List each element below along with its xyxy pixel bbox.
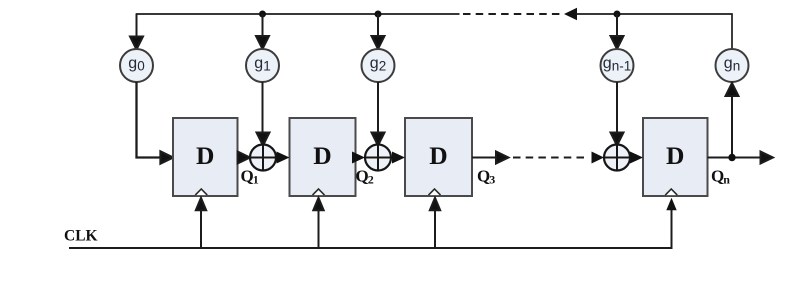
wire: bus drop into g0 with arrowhead bbox=[130, 14, 143, 50]
junction dot on bus above g2 bbox=[375, 11, 382, 18]
tap coefficient g1 bbox=[246, 49, 279, 82]
node label Q3 bbox=[477, 167, 495, 187]
svg-text:g0: g0 bbox=[128, 55, 144, 74]
D flip-flop U2 bbox=[290, 118, 356, 196]
wire: top feedback bus, solid right segment bbox=[577, 14, 733, 49]
arrowhead: CLK into FF4 clock input bbox=[666, 198, 676, 211]
arrowhead: feedback flow pointing left into dashed bus bbox=[564, 8, 577, 20]
svg-text:Q: Q bbox=[477, 167, 490, 186]
XOR gate X1 (modulo-2 adder) bbox=[250, 145, 276, 171]
wire: bus drop into g1 with arrowhead bbox=[256, 14, 269, 49]
D flip-flop U1 bbox=[173, 118, 238, 196]
wire: dashed continuation between FF3 and XOR3 bbox=[513, 157, 586, 159]
junction dot on bus above g1 bbox=[259, 11, 266, 18]
wire: g0 output down and right into FF1 D input with arrowhead bbox=[137, 82, 174, 164]
wire: bus drop into gn-1 with arrowhead bbox=[611, 14, 624, 49]
svg-text:Q: Q bbox=[241, 167, 254, 186]
tap coefficient gn-1 bbox=[601, 49, 634, 82]
svg-text:3: 3 bbox=[489, 173, 495, 187]
wire: FF1 Q output into XOR1 with arrowhead bbox=[238, 152, 251, 164]
wire: CLK branch up into FF1 clock input with arrowhead bbox=[196, 198, 206, 248]
svg-text:n: n bbox=[723, 173, 730, 187]
svg-text:Q: Q bbox=[711, 167, 724, 186]
arrowhead: dashed line into XOR3 bbox=[592, 152, 605, 164]
wire: XOR3 output into FF4 D input with arrowhead bbox=[630, 152, 643, 164]
tap coefficient g2 bbox=[362, 49, 395, 82]
tap coefficient g0 bbox=[120, 49, 153, 82]
wire: output junction up into gn with arrowhead bbox=[726, 83, 739, 158]
node label Q1 bbox=[241, 167, 259, 187]
wire: gn-1 down into XOR3 with arrowhead bbox=[611, 82, 624, 146]
clock edge-trigger notch of U4 bbox=[665, 189, 677, 195]
node label Qn bbox=[711, 167, 730, 187]
svg-text:D: D bbox=[313, 141, 331, 170]
svg-text:D: D bbox=[196, 141, 214, 170]
wire: CLK distribution line bbox=[69, 210, 672, 248]
wire: XOR2 output into FF3 D input with arrowhead bbox=[392, 152, 405, 164]
net label CLK bbox=[64, 228, 98, 245]
svg-text:g2: g2 bbox=[370, 55, 386, 74]
wire: CLK branch up into FF3 clock input with arrowhead bbox=[430, 198, 440, 248]
wire: FF2 Q output into XOR2 with arrowhead bbox=[352, 152, 365, 164]
svg-text:CLK: CLK bbox=[64, 228, 98, 245]
tap coefficient gn bbox=[716, 49, 749, 82]
wire: CLK branch up into FF2 clock input with arrowhead bbox=[313, 198, 323, 248]
svg-text:D: D bbox=[429, 141, 447, 170]
node label Q2 bbox=[356, 167, 374, 187]
XOR gate X2 (modulo-2 adder) bbox=[365, 145, 391, 171]
wire: g1 down into XOR1 with arrowhead bbox=[257, 82, 270, 146]
svg-text:Q: Q bbox=[356, 167, 369, 186]
svg-text:gn: gn bbox=[724, 55, 740, 74]
svg-text:g1: g1 bbox=[254, 55, 270, 74]
wire: top feedback bus, dashed segment bbox=[463, 13, 562, 15]
junction dot at FF4 output node Qn bbox=[728, 154, 735, 161]
svg-text:gn-1: gn-1 bbox=[603, 55, 631, 74]
wire: XOR1 output into FF2 D input with arrowhead bbox=[277, 152, 290, 164]
svg-text:D: D bbox=[666, 141, 684, 170]
wire: g2 down into XOR2 with arrowhead bbox=[372, 82, 385, 146]
XOR gate X3 (modulo-2 adder) bbox=[604, 145, 630, 171]
junction dot on bus above gn-1 bbox=[614, 11, 621, 18]
wire: top feedback bus, solid left segment bbox=[137, 14, 460, 38]
svg-text:1: 1 bbox=[253, 173, 259, 187]
D flip-flop U3 bbox=[405, 118, 472, 196]
wire: FF3 Q output with arrowhead bbox=[472, 152, 509, 164]
clock edge-trigger notch of U2 bbox=[313, 189, 325, 195]
clock edge-trigger notch of U3 bbox=[429, 189, 441, 195]
wire: FF4 Q output to final output arrowhead bbox=[708, 152, 774, 164]
svg-text:2: 2 bbox=[368, 173, 374, 187]
D flip-flop U4 bbox=[643, 118, 708, 196]
clock edge-trigger notch of U1 bbox=[195, 189, 207, 195]
wire: bus drop into g2 with arrowhead bbox=[372, 14, 385, 49]
